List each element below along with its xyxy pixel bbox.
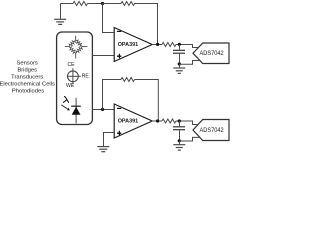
ground GND3 [97, 147, 109, 152]
wire U2 noninverting to ground [104, 133, 115, 147]
resistor R5 [162, 119, 176, 123]
node U1 output [156, 43, 159, 46]
node U2 output [156, 119, 159, 122]
wire U2 output [152, 120, 162, 122]
ADC ADS7042 #1 [193, 43, 229, 64]
ADC ADS7042 #2 [193, 120, 229, 141]
U2 minus [117, 107, 121, 109]
photodiode D1 [75, 98, 77, 124]
U2 plus [117, 131, 121, 135]
wire GND1 to R1 [61, 3, 74, 5]
svg-text:RE: RE [82, 74, 90, 80]
svg-text:WE: WE [66, 83, 75, 89]
wire C1 bottom to ADC1 AINM [179, 61, 200, 65]
node C1 top [178, 43, 181, 46]
bridge stubs [65, 36, 88, 59]
U1 plus [117, 54, 121, 58]
wire node B to R4 [103, 80, 122, 110]
resistor R3 [162, 43, 176, 47]
wire node A to U1 inverting input [103, 4, 115, 33]
op-amp U2 [114, 104, 152, 138]
resistor R2 feedback [121, 2, 135, 6]
wire C2 bottom to ADC2 AINM [179, 137, 200, 141]
op-amp U1 [114, 28, 152, 62]
wire R2 to U1 output node [135, 4, 158, 45]
node C1 bottom [178, 62, 181, 65]
svg-text:ADS7042: ADS7042 [200, 127, 224, 134]
bridge resistor top-left [68, 39, 77, 48]
wire box to U1 noninverting input [92, 55, 114, 57]
wire node A to R2 [103, 3, 122, 5]
svg-text:OPA391: OPA391 [118, 118, 139, 124]
node B junction [101, 108, 104, 111]
resistor R1 [73, 2, 88, 6]
bridge resistor top-right [75, 39, 84, 48]
ground GND4 [173, 141, 185, 150]
bridge resistor bottom-left [68, 45, 77, 54]
svg-text:OPA391: OPA391 [118, 42, 139, 48]
wire U1 output [152, 44, 162, 46]
electrochemical cell [68, 68, 81, 84]
wire R5 to ADC2 AINP [176, 121, 198, 125]
svg-text:CE: CE [67, 62, 75, 68]
capacitor C1 [173, 45, 185, 65]
label lambda [63, 97, 68, 103]
ground GND2 [173, 64, 185, 73]
wire R3 to ADC1 AINP [176, 45, 198, 48]
resistor R4 feedback [121, 78, 135, 82]
light arrow [61, 105, 67, 109]
wire R1 to node A [88, 3, 103, 5]
wire box to node B [92, 109, 114, 111]
node C2 bottom [178, 139, 181, 142]
wire R4 to U2 output node [135, 80, 159, 122]
bridge resistor bottom-right [75, 45, 84, 54]
capacitor C2 [173, 121, 185, 141]
node C2 top [178, 119, 181, 122]
svg-text:ADS7042: ADS7042 [200, 50, 224, 57]
sensor box [57, 32, 93, 125]
ground GND1 [54, 4, 66, 25]
node A junction [101, 2, 104, 5]
U1 minus [117, 30, 121, 32]
